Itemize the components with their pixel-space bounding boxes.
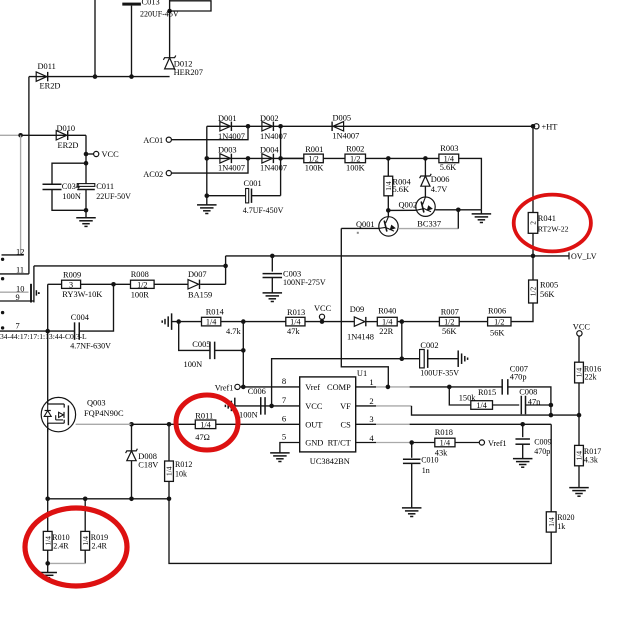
wire D011 to transformer pin11: [28, 77, 30, 274]
svg-text:100NF-275V: 100NF-275V: [283, 278, 326, 287]
svg-text:C004: C004: [71, 313, 90, 322]
junction divider: [577, 413, 582, 418]
wire: [169, 11, 171, 58]
wire: [305, 321, 354, 323]
svg-text:RT/CT: RT/CT: [328, 439, 351, 448]
wire: [225, 256, 227, 284]
svg-text:56K: 56K: [540, 290, 554, 299]
resistor R041 RT2W-22: [528, 213, 538, 234]
junction: [531, 254, 536, 259]
wire sense row: [48, 498, 169, 500]
svg-text:6: 6: [282, 414, 287, 424]
svg-text:3: 3: [369, 414, 373, 424]
svg-text:R008: R008: [131, 270, 149, 279]
svg-text:1/2: 1/2: [494, 318, 504, 327]
svg-text:R040: R040: [378, 307, 396, 316]
wire: [493, 404, 520, 406]
svg-text:1: 1: [369, 377, 373, 387]
resistor R015: [471, 401, 493, 410]
capacitor C013 plate: [122, 3, 141, 6]
pin 3 CS wire: [356, 423, 376, 425]
capacitor C005 100N: [179, 322, 210, 351]
svg-text:47n: 47n: [528, 397, 541, 406]
diode D002 1N4007: [262, 122, 273, 131]
svg-text:10k: 10k: [175, 470, 187, 479]
wire: [271, 256, 273, 272]
wire R040 node down: [401, 322, 403, 359]
svg-text:VCC: VCC: [314, 304, 332, 313]
ground: [197, 204, 217, 206]
resistor R012 10k: [168, 424, 170, 461]
pin 8 Vref wire: [240, 386, 300, 388]
svg-text:R011: R011: [195, 412, 213, 421]
wire gray from left edge: [0, 134, 21, 136]
pin 5 GND wire: [280, 443, 300, 453]
ground: [472, 213, 492, 215]
junction: [84, 208, 89, 213]
svg-text:BC337: BC337: [417, 219, 441, 228]
wire down to C011: [85, 135, 87, 183]
wire Q003 source down: [47, 423, 49, 499]
junction: [549, 413, 554, 418]
svg-text:100UF-35V: 100UF-35V: [420, 369, 459, 378]
diode D010 ER2D: [56, 131, 67, 140]
wire: [412, 442, 435, 444]
resistor R001 100K: [304, 154, 324, 163]
capacitor C003 100NF-275V: [263, 273, 283, 275]
diode D004 1N4007: [262, 154, 273, 163]
wire pin12 stub: [2, 254, 24, 256]
junction: [269, 404, 274, 409]
wire VCC aux row: [272, 359, 420, 406]
svg-text:1N4007: 1N4007: [218, 132, 245, 141]
ground: [263, 292, 283, 294]
svg-text:RY3W-10K: RY3W-10K: [62, 290, 102, 299]
wire Q001 base to COMP: [341, 228, 388, 387]
svg-text:34-44:17:17:1:13:44-C0.3-L: 34-44:17:17:1:13:44-C0.3-L: [0, 332, 87, 341]
ground: [513, 458, 533, 460]
wire left vertical from top: [94, 0, 96, 77]
wire C004 right up: [79, 284, 113, 331]
wire Q002 base: [388, 209, 416, 211]
ground sideways right: [457, 350, 459, 367]
junction: [549, 403, 554, 408]
wire: [221, 321, 286, 323]
svg-text:1/2: 1/2: [137, 280, 147, 289]
resistor R019 2.4R: [84, 499, 86, 532]
svg-text:1/4: 1/4: [290, 318, 300, 327]
svg-text:R020: R020: [557, 513, 574, 522]
wire C007 to node: [508, 387, 551, 405]
svg-text:100K: 100K: [305, 164, 324, 173]
svg-text:D007: D007: [188, 270, 207, 279]
wire: [81, 283, 131, 285]
svg-text:ER2D: ER2D: [58, 141, 79, 150]
svg-text:1/4: 1/4: [382, 318, 392, 327]
highlight ellipse around R041: [514, 195, 591, 252]
svg-text:1n: 1n: [422, 466, 430, 475]
wire: [410, 423, 552, 425]
svg-text:3: 3: [69, 280, 73, 289]
wire VF to divider: [412, 406, 580, 415]
svg-text:5.6K: 5.6K: [440, 163, 457, 172]
core tick: [35, 290, 37, 295]
svg-text:150k: 150k: [459, 393, 477, 402]
wire pin9 stub: [0, 300, 34, 302]
svg-text:56K: 56K: [490, 329, 504, 338]
svg-text:VF: VF: [340, 402, 351, 411]
svg-text:8: 8: [282, 376, 286, 386]
wire top row (D011/D012 row): [29, 76, 170, 78]
resistor R040 22R: [377, 317, 397, 326]
junction R015 takeoff: [447, 385, 452, 390]
junction emitters: [456, 208, 461, 213]
svg-text:R005: R005: [540, 280, 558, 289]
transformer core bars: [30, 284, 32, 303]
resistor R008 100R: [131, 280, 155, 288]
wire drain: [47, 331, 49, 404]
zener D006 4.7V: [424, 158, 426, 176]
terminal Vref1: [235, 384, 240, 389]
svg-text:C001: C001: [244, 179, 262, 188]
junction C004: [111, 282, 116, 287]
svg-text:1N4148: 1N4148: [347, 333, 374, 342]
wire: [132, 423, 196, 425]
transistor Q001: [379, 217, 398, 236]
capacitor C001 4.7UF-450V: [207, 195, 246, 197]
diode D09 1N4148: [354, 317, 365, 326]
svg-text:HER207: HER207: [174, 68, 203, 77]
svg-text:100R: 100R: [131, 291, 150, 300]
svg-text:1/4: 1/4: [476, 401, 486, 410]
wire: [47, 284, 49, 331]
junction: [246, 124, 251, 129]
zener D008 C18V: [131, 424, 133, 451]
svg-text:R006: R006: [488, 307, 506, 316]
svg-text:OUT: OUT: [305, 421, 322, 430]
svg-text:4.7UF-450V: 4.7UF-450V: [243, 206, 284, 215]
wire left bridge vertical: [206, 126, 208, 195]
svg-text:22UF-50V: 22UF-50V: [96, 192, 131, 201]
svg-text:1/4: 1/4: [444, 155, 454, 164]
junction top loop: [167, 9, 172, 14]
ground sideways (R014 row): [171, 313, 173, 330]
svg-text:RT2W-22: RT2W-22: [538, 224, 569, 233]
svg-text:100K: 100K: [346, 164, 365, 173]
svg-text:C005: C005: [192, 340, 210, 349]
diode D001 1N4007: [220, 122, 231, 131]
svg-text:1/4: 1/4: [440, 439, 450, 448]
svg-text:UC3842BN: UC3842BN: [310, 457, 350, 466]
svg-text:C011: C011: [96, 182, 114, 191]
junction C010: [409, 440, 414, 445]
ground sense: [38, 572, 57, 574]
svg-text:7: 7: [282, 395, 287, 405]
svg-text:1/4: 1/4: [575, 451, 584, 461]
svg-text:7: 7: [16, 321, 20, 330]
wire: [410, 386, 502, 388]
wire gate gray: [76, 423, 132, 425]
ground: [76, 217, 96, 219]
wire right bridge vertical: [280, 126, 282, 195]
svg-text:COMP: COMP: [327, 383, 351, 392]
resistor R003 5.6K: [439, 154, 459, 163]
junction: [278, 124, 283, 129]
wire: [455, 442, 479, 444]
svg-text:C003: C003: [283, 269, 301, 278]
junction R004/Q001/Q002: [386, 208, 391, 213]
junction: [205, 156, 210, 161]
wire C013 down: [131, 6, 133, 77]
svg-text:56K: 56K: [442, 327, 456, 336]
svg-text:1N4007: 1N4007: [260, 132, 287, 141]
pin 7 VCC wire: [235, 405, 300, 407]
diode D012 HER207: [163, 56, 175, 60]
junction C005: [176, 319, 181, 324]
wire: [550, 405, 552, 415]
diode D003 1N4007: [220, 154, 231, 163]
junction R004 tap: [386, 156, 391, 161]
wire to ground: [458, 209, 481, 211]
svg-text:2.4R: 2.4R: [92, 541, 108, 550]
junction: [129, 74, 134, 79]
svg-text:R013: R013: [287, 308, 305, 317]
resistor R013 47k: [286, 317, 305, 326]
resistor R002 100K: [345, 154, 366, 163]
junction: [45, 561, 50, 566]
wire sense to R020: [169, 499, 551, 564]
svg-text:R002: R002: [346, 144, 364, 153]
capacitor C002 100UF-35V: [420, 350, 425, 368]
svg-text:470p: 470p: [534, 447, 550, 456]
resistor R015 150k: [449, 387, 471, 405]
svg-text:C008: C008: [519, 387, 537, 396]
junction: [129, 497, 134, 502]
svg-text:D006: D006: [431, 175, 450, 184]
svg-text:C013: C013: [142, 0, 160, 7]
svg-text:5: 5: [282, 432, 286, 442]
svg-text:D09: D09: [350, 305, 364, 314]
wire pin10 stub gray: [0, 291, 29, 293]
svg-text:C006: C006: [248, 387, 266, 396]
svg-text:D001: D001: [218, 114, 237, 123]
resistor R014 4.7k: [202, 317, 221, 326]
wire Q002 emitter: [435, 209, 458, 211]
svg-text:4.3k: 4.3k: [584, 455, 598, 464]
highlight ellipse around R011: [176, 395, 238, 450]
svg-text:VCC: VCC: [305, 402, 323, 411]
svg-text:D011: D011: [38, 62, 56, 71]
svg-text:1/2: 1/2: [308, 155, 318, 164]
svg-text:1N4007: 1N4007: [218, 164, 245, 173]
wire gray down to pin 12: [20, 135, 22, 255]
junction: [400, 356, 405, 361]
capacitor C008 47n: [520, 396, 522, 415]
svg-text:4.7NF-630V: 4.7NF-630V: [70, 341, 111, 350]
svg-text:C009: C009: [534, 438, 551, 447]
svg-text:1N4007: 1N4007: [260, 164, 287, 173]
svg-text:+HT: +HT: [542, 123, 558, 132]
diode D007 BA159: [188, 280, 199, 289]
capacitor C010 1n: [411, 443, 413, 458]
junction C009: [520, 422, 525, 427]
wire: [397, 321, 439, 323]
junction D006 tap: [423, 156, 428, 161]
svg-text:47k: 47k: [287, 327, 300, 336]
wire: [206, 196, 208, 205]
wire pin11 to node (wire B): [34, 265, 226, 267]
tick OV_LV: [568, 252, 570, 259]
wire Q001 collector: [387, 210, 389, 216]
wire D007 to node: [200, 283, 225, 285]
wire pin11 stub: [0, 273, 29, 275]
wire: [526, 404, 551, 406]
resistor R011 47R: [195, 420, 216, 429]
wire pin area vertical: [33, 266, 35, 303]
capacitor C004 4.7NF-630V: [74, 322, 76, 340]
junction drain: [45, 329, 50, 334]
svg-text:5.6K: 5.6K: [393, 185, 410, 194]
highlight ellipse around R010/R019: [25, 508, 127, 586]
diode D005 1N4007: [331, 122, 333, 131]
svg-text:47Ω: 47Ω: [195, 433, 210, 442]
junction: [205, 193, 210, 198]
capacitor C034 100N: [52, 163, 86, 184]
wire: [47, 563, 49, 572]
Q003 body diode: [44, 411, 51, 417]
svg-text:R012: R012: [175, 460, 192, 469]
junction: [246, 156, 251, 161]
svg-text:D003: D003: [218, 145, 237, 154]
wire D010 row: [21, 134, 86, 136]
wire +HT down to R041: [532, 126, 534, 212]
junction R012: [167, 422, 172, 427]
terminal Vref1 (RT): [479, 440, 484, 445]
svg-text:220UF-45V: 220UF-45V: [140, 9, 179, 18]
wire: [366, 321, 377, 323]
svg-text:R003: R003: [440, 144, 458, 153]
junction +HT: [531, 124, 536, 129]
svg-text:C002: C002: [420, 341, 438, 350]
svg-text:1/4: 1/4: [575, 368, 584, 378]
pin 6 OUT wire to R011: [216, 423, 300, 425]
wire CS down to R020: [550, 424, 552, 512]
svg-text:1/4: 1/4: [165, 466, 174, 476]
junction: [278, 156, 283, 161]
svg-text:R041: R041: [538, 214, 556, 223]
wire AC02: [171, 158, 248, 173]
pin 4 RT/CT wire: [356, 442, 376, 444]
ground: [569, 487, 589, 489]
junction: [167, 497, 172, 502]
op-amp U1 UC3842BN box: [300, 377, 356, 452]
resistor R004 5.6K: [387, 158, 389, 176]
svg-text:1/4: 1/4: [547, 517, 556, 527]
svg-text:C18V: C18V: [138, 460, 158, 469]
svg-text:1N4007: 1N4007: [332, 131, 359, 140]
svg-text:BA159: BA159: [188, 291, 212, 300]
svg-text:Vref1: Vref1: [215, 383, 234, 392]
svg-text:ER2D: ER2D: [40, 81, 61, 90]
svg-text:VCC: VCC: [573, 323, 591, 332]
svg-text:OV_LV: OV_LV: [571, 252, 597, 261]
capacitor C009 470p: [522, 424, 524, 437]
svg-text:VCC: VCC: [102, 150, 120, 159]
svg-text:22R: 22R: [379, 327, 393, 336]
svg-text:4.7V: 4.7V: [431, 185, 448, 194]
resistor R018 43k: [435, 438, 455, 447]
svg-text:100N: 100N: [62, 192, 81, 201]
capacitor C007 470p: [501, 379, 503, 395]
svg-text:D010: D010: [57, 124, 76, 133]
svg-text:1/2: 1/2: [444, 318, 454, 327]
wire row2 to R001: [281, 157, 304, 159]
wire pin7 row: [0, 330, 74, 332]
svg-text:470p: 470p: [510, 373, 527, 382]
svg-text:1/4: 1/4: [200, 420, 210, 429]
junction: [93, 74, 98, 79]
svg-text:Q002: Q002: [399, 200, 418, 209]
svg-text:4.7k: 4.7k: [226, 327, 241, 336]
junction C003: [270, 254, 275, 259]
wire Q001 emitter gray: [398, 228, 458, 230]
resistor R007 56K: [439, 317, 459, 326]
ground: [270, 452, 290, 454]
resistor R017 4.3k: [578, 415, 580, 445]
resistor R020 1k: [546, 512, 556, 532]
wire R003 to ground stem: [459, 158, 482, 209]
resistor R005 56K: [532, 256, 534, 280]
capacitor C011 22UF-50V: [77, 184, 95, 187]
wire ground stem: [480, 210, 482, 214]
junction: [400, 319, 405, 324]
wire: [168, 481, 170, 498]
wire top snubber loop: [169, 0, 171, 11]
svg-text:D012: D012: [174, 59, 193, 68]
svg-text:1/2: 1/2: [350, 155, 360, 164]
wire R041 to OV_LV: [532, 233, 534, 256]
svg-text:1/2: 1/2: [529, 286, 538, 296]
svg-text:2.4R: 2.4R: [53, 541, 69, 550]
svg-text:1/4: 1/4: [206, 318, 216, 327]
winding bumps (cut off): [1, 258, 4, 261]
junction COMP: [386, 385, 391, 390]
svg-text:4: 4: [369, 433, 374, 443]
wire: [428, 358, 459, 360]
capacitor C006 100N: [260, 397, 262, 415]
junction C034 branch: [84, 161, 89, 166]
wire divider down to Vref pin: [242, 322, 244, 387]
junction: [241, 348, 246, 353]
svg-text:AC01: AC01: [143, 136, 163, 145]
wire OV_LV row: [226, 255, 569, 257]
resistor R009 RY3W-10K: [62, 280, 81, 288]
junction Vref1 divider: [241, 319, 246, 324]
svg-text:1/4: 1/4: [81, 536, 90, 546]
wire: [154, 283, 188, 285]
wire R006 to R005: [511, 303, 533, 322]
svg-text:FQP4N90C: FQP4N90C: [84, 409, 124, 418]
wire: [366, 157, 439, 159]
svg-text:R001: R001: [305, 145, 323, 154]
svg-text:R007: R007: [441, 308, 459, 317]
pin 2 VF wire: [356, 405, 376, 407]
junction: [45, 497, 50, 502]
junction node pin11/D007/C003: [223, 264, 228, 269]
wire: [85, 190, 87, 218]
ground sideways C006: [234, 398, 236, 415]
svg-text:R015: R015: [478, 388, 496, 397]
